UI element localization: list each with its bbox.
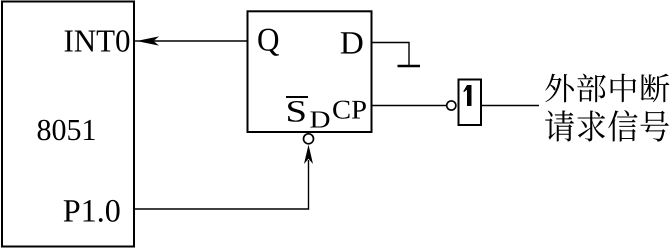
pin label SD (active-low set, S overbar subscript D) [286, 97, 329, 128]
pin label P1.0 [64, 200, 120, 222]
pin label Q [258, 29, 279, 56]
arrowhead into INT0 [137, 36, 160, 45]
wire CP input from inverter output [372, 105, 447, 107]
label line 1: external interrupt (Chinese) [545, 74, 669, 103]
label 8051 [38, 120, 95, 141]
wire P1.0 to SD input [134, 160, 309, 209]
pin label D [341, 32, 363, 53]
up arrowhead into SD bubble [304, 145, 313, 164]
pin label INT0 [65, 30, 130, 52]
pin label CP [333, 101, 366, 119]
flip-flop U2 (D latch) box [248, 11, 372, 132]
inverter U3 output negation bubble [447, 101, 456, 110]
wire inverter input from external request signal [481, 105, 539, 107]
inverter U3 box [459, 80, 482, 126]
ground symbol [398, 65, 421, 68]
wire D input to ground [372, 43, 410, 67]
wire Q output to INT0 [150, 40, 248, 42]
MCU box U1 (8051 microcontroller) [2, 2, 134, 247]
label 1 (logic function) [463, 85, 471, 106]
wire stub at INT0 pin [134, 40, 140, 42]
label line 2: request signal (Chinese) [545, 110, 669, 142]
bubble on SD set input (active low) [304, 134, 314, 144]
